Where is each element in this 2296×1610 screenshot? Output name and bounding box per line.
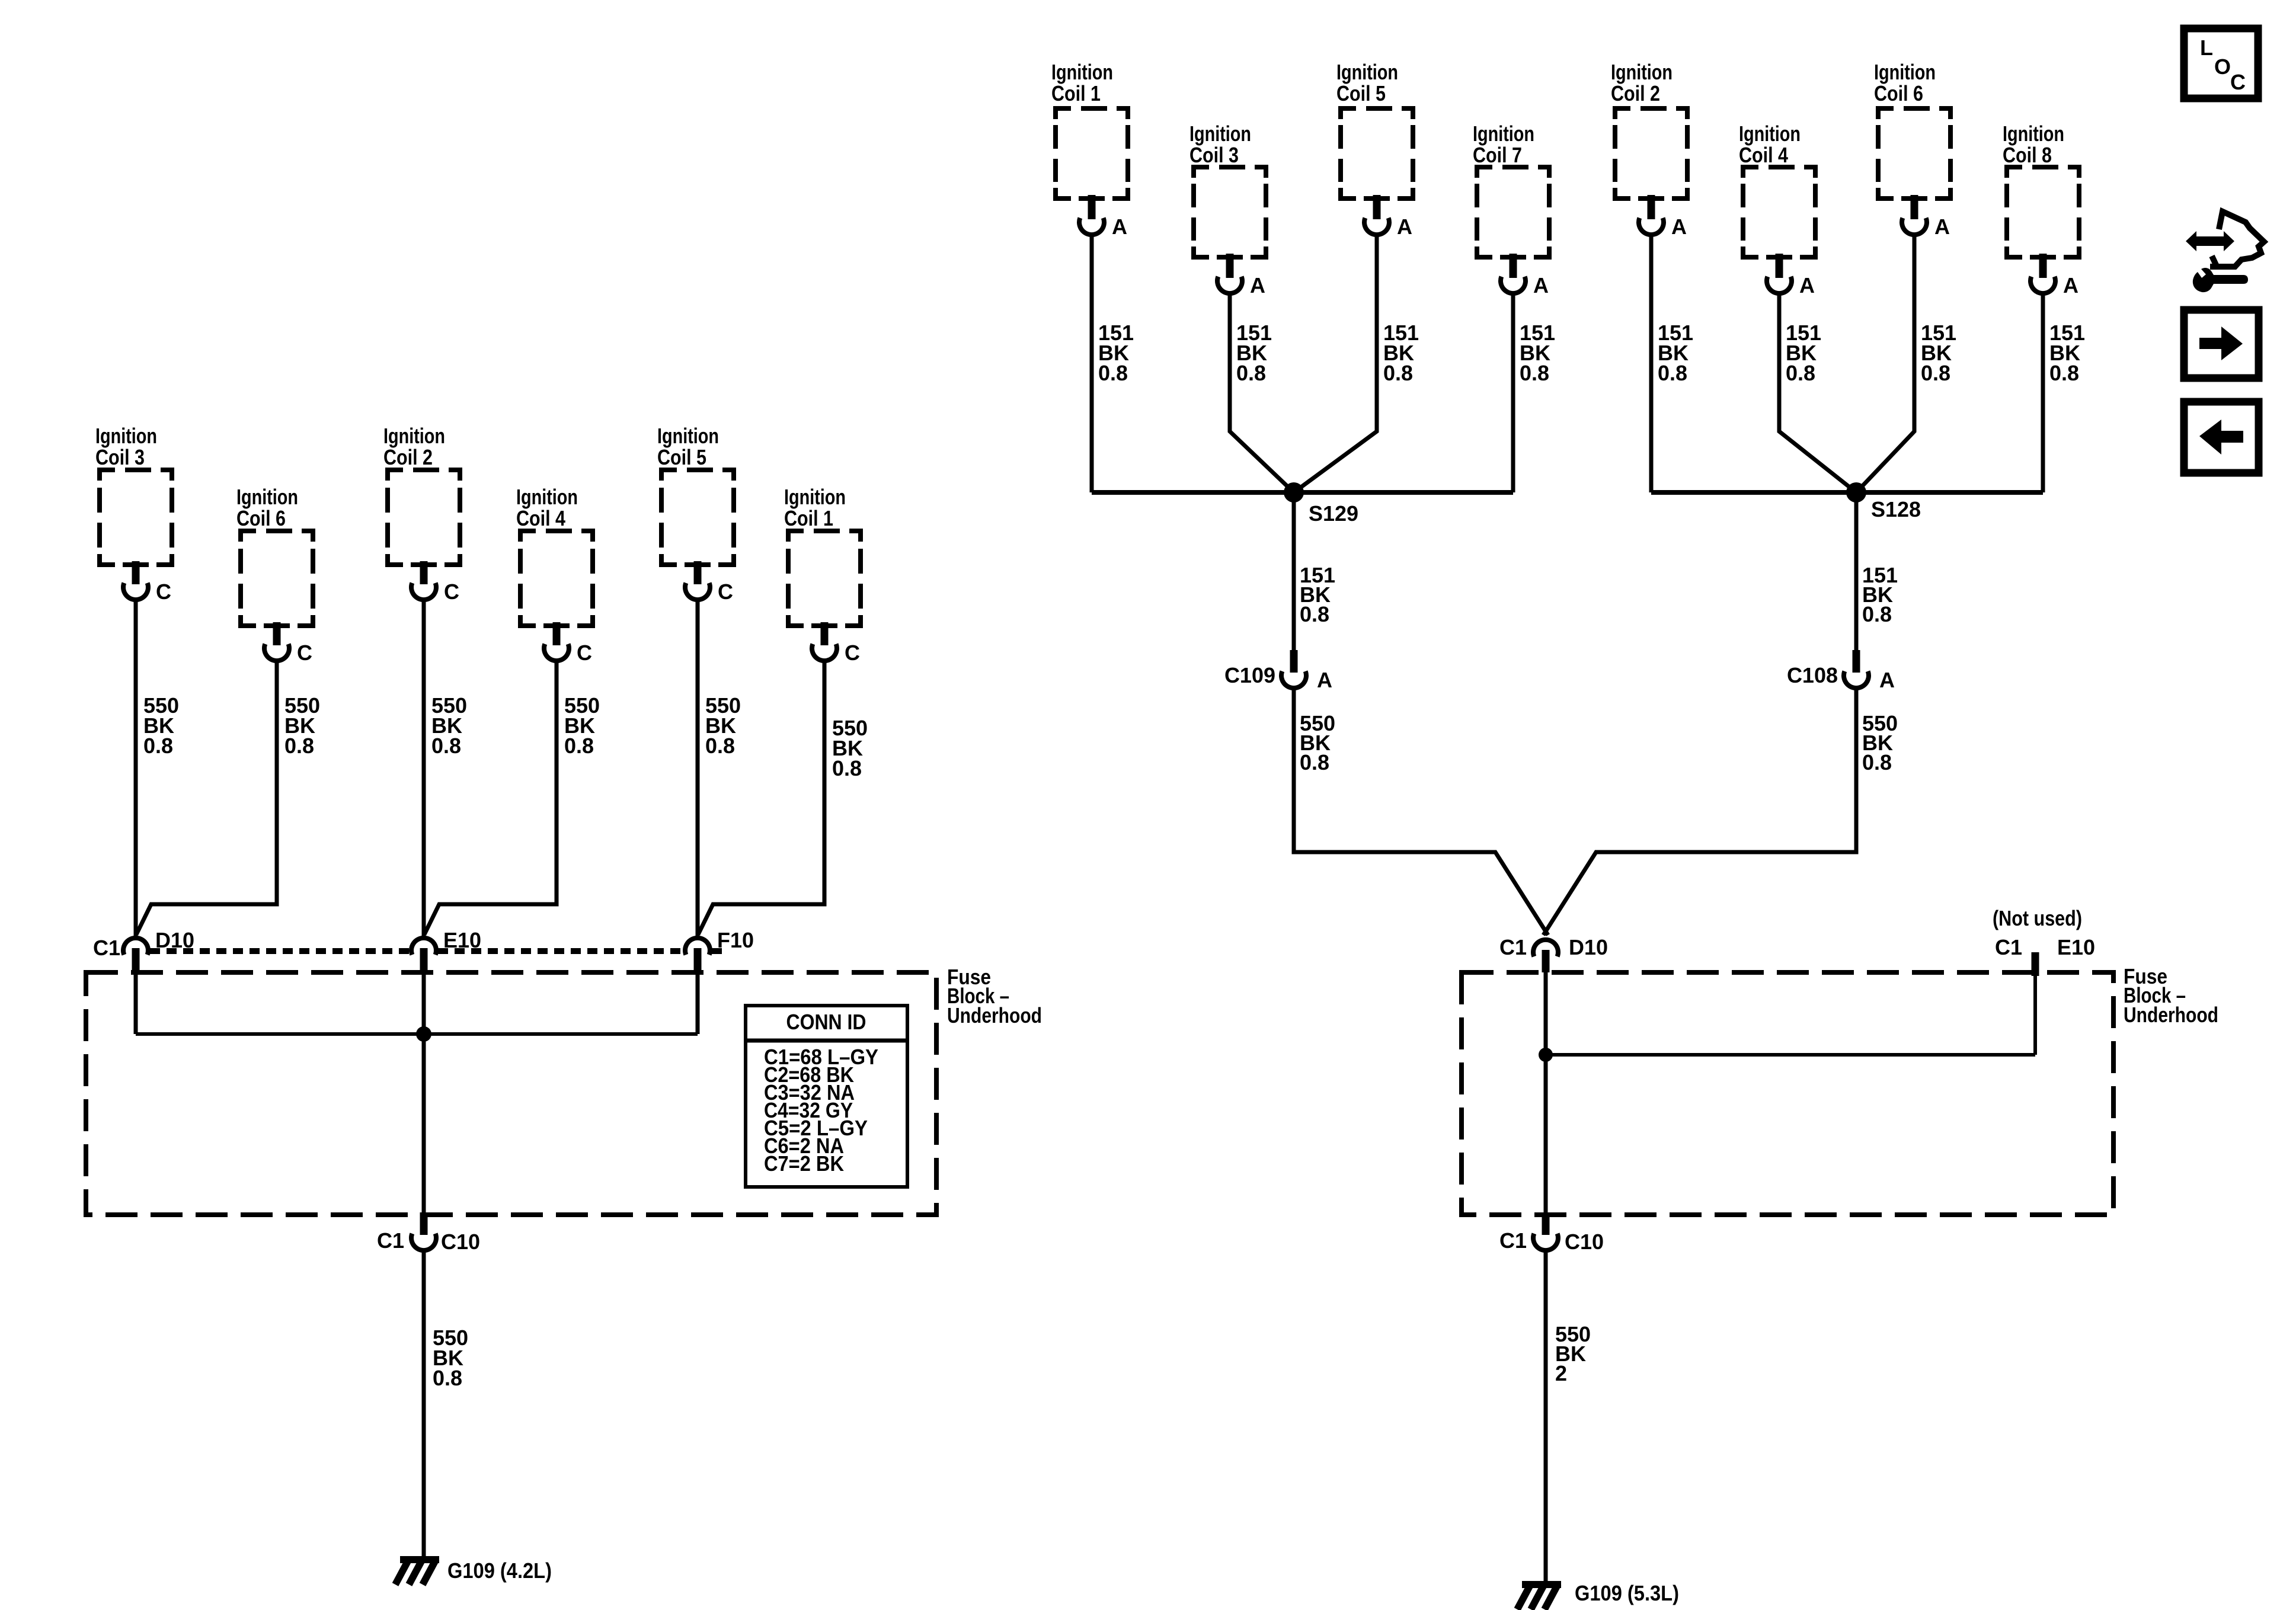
- coil 5 connector C (4.2L): [685, 561, 733, 604]
- svg-text:0.8: 0.8: [143, 734, 173, 758]
- svg-text:2: 2: [1555, 1361, 1567, 1385]
- ignition Coil 3 (4.2L): [95, 424, 172, 565]
- svg-text:Ignition: Ignition: [1189, 121, 1251, 146]
- svg-text:Ignition: Ignition: [516, 485, 578, 509]
- svg-text:Coil 8: Coil 8: [2003, 143, 2052, 167]
- svg-text:A: A: [1934, 215, 1950, 239]
- ignition Coil 2 (5.3L): [1611, 60, 1687, 199]
- svg-text:C1: C1: [1499, 935, 1527, 959]
- svg-text:Ignition: Ignition: [1336, 60, 1398, 84]
- svg-text:C7=2 BK: C7=2 BK: [764, 1151, 844, 1176]
- svg-text:Coil 6: Coil 6: [236, 506, 286, 530]
- svg-text:0.8: 0.8: [433, 1366, 462, 1390]
- bus wire to E10 inside right fuse block: [1546, 976, 2035, 1055]
- service manual icon (double arrow, outline, wrench): [2186, 212, 2264, 292]
- coil 1 connector A (5.3L): [1079, 195, 1127, 239]
- svg-text:0.8: 0.8: [1658, 361, 1687, 385]
- connector C108 A: [1787, 650, 1895, 692]
- svg-text:A: A: [1317, 668, 1332, 692]
- wire 151 BK 0.8 from S128 to C108: [1856, 492, 1898, 652]
- wire 550 BK 0.8 from coil 5 (4.2L): [698, 598, 741, 936]
- svg-text:S128: S128: [1871, 497, 1921, 521]
- svg-text:C: C: [297, 641, 312, 665]
- connector F10 (fuse block): [685, 928, 754, 971]
- coil 3 connector C (4.2L): [123, 561, 171, 604]
- svg-text:Coil 2: Coil 2: [1611, 81, 1660, 105]
- coil 6 connector A (5.3L): [1901, 195, 1950, 239]
- connector D10 (fuse block): [93, 928, 194, 971]
- svg-text:0.8: 0.8: [1236, 361, 1266, 385]
- wire 151 BK 0.8 from coil 6 (5.3L): [1856, 233, 1956, 492]
- splice line S128: [1651, 490, 2043, 495]
- svg-text:A: A: [1799, 273, 1815, 297]
- svg-text:A: A: [1671, 215, 1687, 239]
- svg-text:C: C: [718, 580, 733, 604]
- coil 4 connector A (5.3L): [1766, 254, 1815, 297]
- svg-text:C1: C1: [1995, 935, 2022, 959]
- svg-text:0.8: 0.8: [1300, 602, 1329, 626]
- wire 151 BK 0.8 from coil 3 (5.3L): [1230, 292, 1294, 492]
- wire 151 BK 0.8 from coil 2 (5.3L): [1651, 233, 1693, 492]
- svg-text:0.8: 0.8: [1786, 361, 1815, 385]
- junction at E10/bus: [416, 1026, 431, 1042]
- svg-text:0.8: 0.8: [431, 734, 461, 758]
- ignition Coil 2 (4.2L): [383, 424, 460, 565]
- splice line S129: [1092, 490, 1513, 495]
- svg-text:A: A: [1250, 273, 1265, 297]
- coil 6 connector C (4.2L): [264, 622, 312, 665]
- svg-text:Coil 4: Coil 4: [1739, 143, 1788, 167]
- wire 550 BK 0.8 from coil 1 (4.2L): [698, 659, 868, 934]
- coil 7 connector A (5.3L): [1500, 254, 1549, 297]
- connector C1 E10 (not used): [1993, 906, 2095, 976]
- svg-text:Coil 3: Coil 3: [1189, 143, 1239, 167]
- svg-text:Ignition: Ignition: [1473, 121, 1534, 146]
- wire 151 BK 0.8 from coil 5 (5.3L): [1294, 233, 1419, 492]
- svg-text:C1: C1: [93, 936, 120, 960]
- svg-text:Ignition: Ignition: [95, 424, 157, 448]
- svg-text:A: A: [1112, 215, 1127, 239]
- wire 550 BK 0.8 from coil 2 (4.2L): [424, 598, 467, 936]
- svg-text:0.8: 0.8: [1520, 361, 1549, 385]
- coil 5 connector A (5.3L): [1364, 195, 1412, 239]
- connector C1/C10 (left fuse block bottom): [377, 1212, 480, 1254]
- svg-text:A: A: [1879, 668, 1895, 692]
- svg-text:0.8: 0.8: [1921, 361, 1950, 385]
- svg-text:D10: D10: [1569, 935, 1608, 959]
- splice S128: [1846, 482, 1921, 521]
- ground G109 (4.2L): [395, 1556, 552, 1585]
- svg-text:S129: S129: [1309, 501, 1358, 526]
- wire D10 down inside right fuse block: [1544, 972, 1548, 1213]
- connector C1/C10 (right fuse block bottom): [1499, 1212, 1604, 1254]
- ignition Coil 1 (5.3L): [1051, 60, 1128, 199]
- svg-text:C109: C109: [1224, 663, 1275, 687]
- svg-text:D10: D10: [155, 928, 194, 952]
- wire D10 to bus (inside fuse block): [134, 971, 138, 1034]
- ignition Coil 7 (5.3L): [1473, 121, 1549, 257]
- svg-text:Underhood: Underhood: [947, 1003, 1042, 1028]
- svg-text:0.8: 0.8: [284, 734, 314, 758]
- ignition Coil 6 (4.2L): [236, 485, 313, 626]
- svg-text:0.8: 0.8: [1383, 361, 1413, 385]
- svg-text:C: C: [845, 641, 860, 665]
- svg-text:Coil 1: Coil 1: [1051, 81, 1101, 105]
- LOC icon box: [2184, 28, 2258, 98]
- wire F10 to bus (inside fuse block): [696, 971, 700, 1034]
- coil 3 connector A (5.3L): [1217, 254, 1265, 297]
- svg-text:Ignition: Ignition: [1739, 121, 1801, 146]
- coil 2 connector A (5.3L): [1638, 195, 1687, 239]
- svg-text:E10: E10: [443, 928, 481, 952]
- wire 550 BK 2 to G109 (5.3L): [1546, 1250, 1591, 1581]
- ignition Coil 8 (5.3L): [2003, 121, 2079, 257]
- svg-text:C: C: [156, 580, 171, 604]
- svg-text:(Not used): (Not used): [1993, 906, 2082, 930]
- svg-text:0.8: 0.8: [1862, 750, 1892, 774]
- fuse block - underhood (left) dashed box: [86, 965, 1042, 1215]
- connector C109 A: [1224, 650, 1332, 692]
- wire 151 BK 0.8 from coil 8 (5.3L): [2043, 292, 2085, 492]
- junction at D10/bus (right): [1539, 1048, 1553, 1062]
- svg-text:Ignition: Ignition: [657, 424, 719, 448]
- bus wire inside fuse block: [136, 1032, 698, 1036]
- ground G109 (5.3L): [1517, 1581, 1679, 1609]
- svg-text:0.8: 0.8: [1300, 750, 1329, 774]
- forward arrow icon box: [2184, 310, 2259, 378]
- svg-text:C10: C10: [441, 1230, 480, 1254]
- svg-text:C108: C108: [1787, 663, 1838, 687]
- wire 151 BK 0.8 from coil 1 (5.3L): [1092, 233, 1134, 492]
- wire 550 BK 0.8 to G109 (4.2L): [424, 1250, 468, 1556]
- wire 151 BK 0.8 from coil 7 (5.3L): [1513, 292, 1555, 492]
- svg-text:G109 (4.2L): G109 (4.2L): [447, 1558, 552, 1583]
- wire E10 down to C10 (inside fuse block): [422, 971, 426, 1213]
- svg-text:Coil 4: Coil 4: [516, 506, 565, 530]
- svg-text:Coil 5: Coil 5: [657, 445, 706, 469]
- splice S129: [1284, 482, 1358, 526]
- wire 550 BK 0.8 from coil 6 (4.2L): [136, 659, 320, 934]
- svg-text:0.8: 0.8: [564, 734, 594, 758]
- svg-text:Ignition: Ignition: [1874, 60, 1936, 84]
- wire 550 BK 0.8 from coil 4 (4.2L): [424, 659, 600, 934]
- svg-text:Coil 7: Coil 7: [1473, 143, 1522, 167]
- svg-text:Coil 1: Coil 1: [784, 506, 833, 530]
- wire 550 BK 0.8 from coil 3 (4.2L): [136, 598, 179, 936]
- connector E10 (fuse block): [411, 928, 481, 971]
- coil 1 connector C (4.2L): [811, 622, 860, 665]
- svg-text:A: A: [1397, 215, 1412, 239]
- wire 151 BK 0.8 from coil 4 (5.3L): [1779, 292, 1856, 492]
- svg-text:Coil 5: Coil 5: [1336, 81, 1386, 105]
- svg-text:G109 (5.3L): G109 (5.3L): [1575, 1581, 1679, 1605]
- connector row C1 (fuse block top, dashed): [150, 948, 722, 954]
- wire 151 BK 0.8 from S129 to C109: [1294, 492, 1335, 652]
- ignition Coil 6 (5.3L): [1874, 60, 1950, 199]
- svg-text:0.8: 0.8: [2049, 361, 2079, 385]
- svg-text:Coil 6: Coil 6: [1874, 81, 1923, 105]
- ignition Coil 5 (5.3L): [1336, 60, 1413, 199]
- back arrow icon box: [2184, 402, 2259, 473]
- ignition Coil 4 (4.2L): [516, 485, 593, 626]
- svg-text:E10: E10: [2057, 935, 2095, 959]
- fuse block - underhood (right) dashed box: [1462, 964, 2218, 1215]
- connector C1 D10 (right fuse block): [1499, 935, 1608, 972]
- svg-text:Underhood: Underhood: [2124, 1003, 2218, 1027]
- svg-text:C: C: [577, 641, 592, 665]
- svg-text:L: L: [2200, 36, 2213, 60]
- svg-text:C: C: [444, 580, 459, 604]
- svg-text:Ignition: Ignition: [1051, 60, 1113, 84]
- svg-text:0.8: 0.8: [705, 734, 735, 758]
- svg-text:Coil 2: Coil 2: [383, 445, 433, 469]
- svg-text:CONN ID: CONN ID: [786, 1010, 866, 1034]
- svg-text:C10: C10: [1565, 1230, 1604, 1254]
- svg-text:Coil 3: Coil 3: [95, 445, 145, 469]
- ignition Coil 1 (4.2L): [784, 485, 861, 626]
- svg-text:A: A: [2063, 273, 2078, 297]
- svg-text:C: C: [2230, 70, 2246, 94]
- wire 550 BK 0.8 from C109 to D10: [1294, 687, 1548, 935]
- ignition Coil 3 (5.3L): [1189, 121, 1266, 257]
- coil 8 connector A (5.3L): [2030, 254, 2078, 297]
- svg-text:Ignition: Ignition: [2003, 121, 2064, 146]
- svg-text:A: A: [1533, 273, 1549, 297]
- svg-text:0.8: 0.8: [1098, 361, 1128, 385]
- svg-text:C1: C1: [377, 1228, 404, 1253]
- wire 550 BK 0.8 from C108 to D10: [1543, 687, 1898, 935]
- svg-text:Ignition: Ignition: [383, 424, 445, 448]
- svg-text:Ignition: Ignition: [1611, 60, 1673, 84]
- svg-text:F10: F10: [717, 928, 754, 952]
- svg-text:Ignition: Ignition: [784, 485, 846, 509]
- coil 2 connector C (4.2L): [411, 561, 459, 604]
- svg-text:0.8: 0.8: [1862, 602, 1892, 626]
- svg-text:O: O: [2214, 55, 2231, 79]
- ignition Coil 5 (4.2L): [657, 424, 734, 565]
- svg-text:Ignition: Ignition: [236, 485, 298, 509]
- svg-text:C1: C1: [1499, 1228, 1527, 1253]
- coil 4 connector C (4.2L): [543, 622, 592, 665]
- CONN ID table: [746, 1006, 907, 1187]
- svg-text:0.8: 0.8: [832, 756, 862, 780]
- ignition Coil 4 (5.3L): [1739, 121, 1815, 257]
